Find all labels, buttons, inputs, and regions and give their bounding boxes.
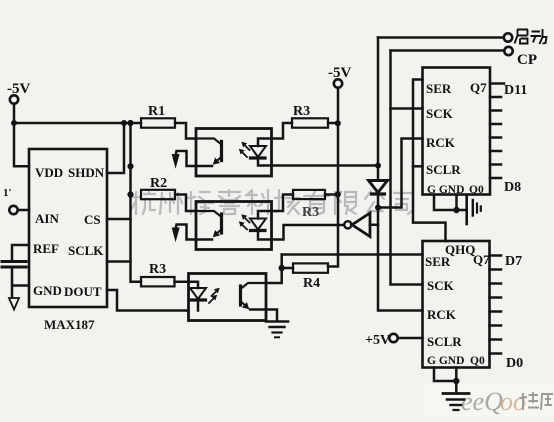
wm char si [394, 193, 413, 214]
watermark veeqoo panel [424, 384, 554, 417]
wire R1 to opto1 [175, 123, 196, 139]
transistor in U3 [196, 211, 222, 217]
node U5 gnd [453, 207, 459, 213]
svg-text:Q0: Q0 [470, 355, 485, 367]
resistor R3 top [292, 118, 328, 127]
wire -5V mid vertical [328, 88, 338, 267]
svg-text:G GND: G GND [427, 355, 464, 367]
led in U4 [189, 282, 199, 288]
node R4 junction [279, 265, 285, 271]
svg-text:REF: REF [33, 241, 59, 256]
wire U5 SCLR [413, 165, 423, 168]
svg-text:R2: R2 [150, 176, 167, 191]
wire SCLK branch to R3 bottom [131, 262, 142, 282]
node -5V junction [335, 120, 341, 126]
svg-text:SER: SER [425, 254, 451, 269]
wm char gong [365, 191, 384, 211]
wm char rui [219, 190, 240, 214]
wm char hang [130, 190, 155, 214]
wire R2 to opto2 [175, 195, 196, 212]
svg-text:SCLR: SCLR [427, 334, 462, 349]
terminal +5V [389, 334, 397, 342]
resistor R3 bottom [141, 277, 175, 286]
node U6 gnd [453, 378, 459, 384]
capacitor C1 [2, 260, 26, 263]
wire left drop to VDD [14, 123, 29, 166]
wm char ji [275, 190, 300, 214]
optocoupler U4 box [189, 274, 267, 321]
node vert-166 [127, 163, 133, 169]
optocoupler U3 box [196, 202, 272, 250]
svg-text:SCLK: SCLK [68, 243, 104, 258]
svg-text:GND: GND [33, 283, 62, 298]
wire U5 RCK [378, 139, 423, 208]
svg-text:D11: D11 [504, 83, 527, 98]
ground sideways U5 [465, 196, 468, 224]
light arrows U3 [245, 218, 250, 223]
wire CP vertical [391, 51, 423, 285]
wire CS stub [107, 218, 131, 221]
svg-text:RCK: RCK [426, 135, 456, 150]
led in U2 [258, 139, 272, 147]
watermark veeqoo text [461, 387, 526, 416]
node opto1-rck [375, 163, 381, 169]
svg-text:R4: R4 [303, 276, 320, 291]
U5 output stubs Q7..Q0 [490, 82, 504, 85]
wire upper SCK tap [391, 107, 423, 110]
wm char you [304, 190, 329, 214]
svg-text:-5V: -5V [328, 65, 351, 81]
svg-text:VDD: VDD [35, 165, 63, 180]
svg-text:eeQ: eeQ [461, 387, 503, 416]
svg-text:CS: CS [84, 212, 101, 227]
terminal AIN input [9, 206, 17, 214]
wire U6 ground G [434, 368, 456, 382]
svg-text:SCK: SCK [427, 278, 455, 293]
optocoupler U2 box [196, 129, 272, 177]
terminal CP [504, 47, 512, 55]
wire R3 to -5V node [328, 122, 338, 125]
svg-text:D8: D8 [504, 180, 521, 195]
wire inverter tap [370, 224, 378, 227]
led in U3 [258, 211, 272, 219]
wire DOUT to opto3 cathode [107, 290, 189, 311]
ground arrow analog [9, 298, 19, 310]
wire U5 ground G [434, 195, 467, 210]
wire main left vertical [107, 123, 131, 262]
diode D1 [369, 181, 388, 193]
node R2net junction [335, 191, 341, 197]
wm char xian [335, 192, 356, 214]
wire opto3 collector [266, 268, 282, 283]
wire U5 SER cascade [413, 80, 446, 242]
svg-text:SCLR: SCLR [426, 162, 461, 177]
label start CJK (hand-drawn strokes) [515, 29, 547, 44]
wire SHDN riser [107, 123, 124, 173]
svg-text:R3: R3 [302, 205, 319, 220]
wm char jiang [188, 192, 213, 214]
svg-text:-5V: -5V [7, 81, 30, 97]
wire opto1 cathode line [272, 164, 379, 167]
node rail-R1 [127, 120, 133, 126]
wire -5V drop to rail [13, 104, 16, 123]
terminal start [504, 33, 512, 41]
svg-text:D7: D7 [505, 254, 522, 269]
svg-text:R3: R3 [149, 262, 166, 277]
wire arrow stub U3 [176, 225, 196, 240]
svg-text:R1: R1 [148, 104, 165, 119]
node rck-upper [375, 205, 381, 211]
shift register U6 box [423, 241, 490, 368]
wire riser R4 junction to SER line [280, 255, 283, 269]
svg-text:R3: R3 [293, 104, 310, 119]
svg-text:AIN: AIN [35, 211, 59, 226]
node rail-left [11, 120, 17, 126]
wire R4 left [282, 267, 293, 270]
transistor in U4 [241, 283, 267, 289]
wire CP line [391, 49, 504, 52]
power terminal -5V left [10, 95, 18, 103]
light arrows U2 [245, 145, 250, 150]
inverter U7 bubble [344, 221, 351, 228]
svg-text:Q7: Q7 [473, 252, 490, 267]
wm char zhou [160, 193, 182, 214]
wire R3 to opto3 [175, 280, 189, 283]
svg-text:SER: SER [426, 81, 452, 96]
svg-text:+5V: +5V [365, 333, 390, 348]
node rail-SHDN [121, 120, 127, 126]
watermark weiku CJK strokes [520, 392, 554, 410]
U6 output stubs Q7..Q0 [490, 254, 502, 257]
wire opto1 anode riser to R3 top [272, 123, 293, 139]
ground earth U4 [266, 320, 288, 323]
wire R3 mid to -5V vertical [325, 193, 338, 196]
wire opto2 cathode to inverter [272, 225, 345, 240]
svg-text:D0: D0 [506, 356, 523, 371]
svg-text:G GND: G GND [427, 184, 464, 196]
power terminal -5V mid [334, 79, 342, 87]
svg-text:Q0: Q0 [469, 184, 484, 196]
op-amp U1 MAX187 box [29, 149, 107, 307]
wire start line [378, 36, 503, 39]
wire U6 gnd drop [455, 381, 458, 393]
wire AIN stub [18, 209, 29, 212]
svg-text:1': 1' [3, 187, 12, 199]
node vert-R2 [127, 191, 133, 197]
svg-text:MAX187: MAX187 [44, 317, 95, 332]
wire capacitor to GND pin [12, 267, 29, 298]
wire start vertical [377, 38, 380, 181]
light arrows U4 [212, 291, 217, 296]
svg-text:SCK: SCK [426, 106, 454, 121]
svg-text:Q7: Q7 [470, 80, 487, 95]
svg-text:RCK: RCK [427, 307, 457, 322]
wire arrow stub U2 [176, 151, 196, 166]
wire opto2 anode riser to R3 mid [272, 195, 294, 212]
svg-text:SHDN: SHDN [68, 165, 105, 180]
inverter U7 triangle [352, 213, 370, 237]
transistor in U2 [196, 139, 222, 145]
svg-text:CP: CP [517, 52, 537, 68]
shift register U5 box [423, 68, 491, 195]
resistor R4 [293, 263, 328, 272]
wire +5V to SCLR [398, 337, 423, 340]
wire opto3 emitter to ground [266, 310, 277, 322]
watermark company (hand-drawn pale strokes) [130, 190, 413, 214]
wm char ke [246, 190, 268, 214]
resistor R3 mid [293, 190, 325, 199]
resistor R2 [141, 190, 175, 199]
ground earth U6 [443, 392, 469, 395]
wire U6 ground GND stub [455, 368, 458, 382]
resistor R1 [141, 118, 175, 127]
wire U6 SER line [282, 253, 423, 256]
wire diode to lower RCK [378, 194, 423, 311]
wire REF to capacitor [12, 245, 29, 261]
svg-text:DOUT: DOUT [64, 284, 102, 299]
wire U5 ground GND stub [455, 195, 458, 210]
wire top rail [14, 122, 141, 125]
